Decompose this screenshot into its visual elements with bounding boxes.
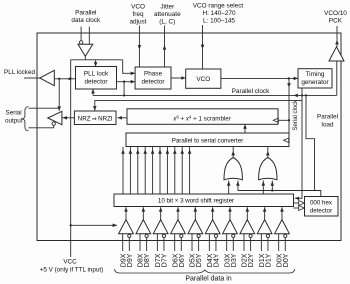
wire serial clock into parallel-serial converter xyxy=(287,139,290,141)
wires shift register outputs to converter (10 bits) xyxy=(122,147,124,194)
wire parallel data clock input Y xyxy=(88,27,90,45)
wire PLL lock detector to PLL locked buffer xyxy=(54,78,75,80)
svg-text:VCO/10: VCO/10 xyxy=(324,10,347,17)
wire clock net horizontal xyxy=(71,59,123,61)
input buffer data receiver D8 xyxy=(142,207,144,219)
node junction VCO output xyxy=(288,77,290,79)
wire clock branch into PLL lock detector xyxy=(95,60,97,67)
wire OR gate B left input from shift register xyxy=(262,181,264,195)
pin D0Y xyxy=(284,238,286,252)
OR gate zero-suppress B xyxy=(259,158,277,180)
wire scrambler to NRZ input xyxy=(118,117,128,119)
svg-text:10 bit × 3 word shift register: 10 bit × 3 word shift register xyxy=(158,198,234,205)
wire line B down into NRZ converter xyxy=(94,100,96,110)
svg-text:Parallel to serial converter: Parallel to serial converter xyxy=(172,137,244,144)
wire clock buffer output down xyxy=(84,56,86,60)
input buffer data receiver D6 xyxy=(177,207,179,219)
pin D0X xyxy=(278,234,280,251)
svg-text:H: 140–270: H: 140–270 xyxy=(202,10,235,17)
svg-text:Serial clock: Serial clock xyxy=(293,99,299,131)
wire jitter attenuate to phase detector xyxy=(164,26,166,68)
node junction hex line at OR gate B xyxy=(271,189,273,191)
pin D4Y xyxy=(215,238,217,252)
svg-text:D1Y: D1Y xyxy=(266,253,273,267)
svg-text:D2Y: D2Y xyxy=(248,253,255,267)
wire OR gate B right input from hex detector line xyxy=(271,181,273,191)
svg-text:VCO: VCO xyxy=(131,4,145,11)
svg-text:VCO: VCO xyxy=(196,76,210,83)
wire PCK output xyxy=(336,26,338,47)
block scrambler x9+x4+1 xyxy=(127,109,278,125)
wire converter to scrambler xyxy=(244,124,246,133)
wire PCK buffer input from parallel clock line xyxy=(336,61,338,95)
svg-text:D7Y: D7Y xyxy=(162,253,169,267)
OR gate zero-suppress A xyxy=(224,158,242,180)
pin D4X xyxy=(208,234,210,251)
wire 000 hex detector output line xyxy=(238,191,321,197)
wire VCO freq adjust to phase detector xyxy=(138,26,140,68)
pin D5X xyxy=(191,234,193,251)
inverting bubble on clock receiver xyxy=(79,41,82,44)
svg-text:detector: detector xyxy=(310,208,332,215)
wire NRZ output to serial driver xyxy=(63,117,75,119)
wire junction down to parallel clock line xyxy=(123,82,125,96)
input buffer clock receiver xyxy=(78,44,93,56)
svg-text:load: load xyxy=(322,122,334,129)
svg-text:Parallel: Parallel xyxy=(317,114,338,121)
wire clock branch to phase detector upper input xyxy=(123,60,135,74)
svg-text:D0Y: D0Y xyxy=(283,253,290,267)
pin D7Y xyxy=(163,238,165,252)
node junction serial clock xyxy=(288,119,290,121)
block 000 hex detector xyxy=(305,197,339,217)
input buffer data receiver D0 xyxy=(281,207,283,219)
block 10 bit x 3 word shift register xyxy=(114,194,294,207)
pin D8X xyxy=(139,234,141,251)
brace parallel data in xyxy=(115,269,295,273)
wire PLL lock detector to phase detector lower input xyxy=(117,81,136,83)
block timing generator xyxy=(298,69,332,88)
input buffer data receiver D1 xyxy=(264,207,266,219)
pin D8Y xyxy=(146,238,148,252)
node junction lower input xyxy=(123,81,125,83)
svg-text:attenuate: attenuate xyxy=(154,11,181,18)
wire serial clock into scrambler xyxy=(278,119,290,121)
wire shift register word to hex detector (bus arrows) xyxy=(294,202,300,204)
svg-text:L: 100–145: L: 100–145 xyxy=(203,18,235,25)
pin D9X xyxy=(122,234,124,251)
svg-text:000 hex: 000 hex xyxy=(310,200,333,207)
wire parallel clock up into PLL lock detector xyxy=(92,89,94,95)
pin D5Y xyxy=(198,238,200,252)
input buffer data receiver D7 xyxy=(160,207,162,219)
svg-text:freq: freq xyxy=(132,11,143,18)
svg-text:generator: generator xyxy=(301,79,329,86)
wire serial clock feed line B xyxy=(95,99,302,101)
output buffer serial output driver xyxy=(48,111,62,124)
wire VCC to input buffers xyxy=(71,224,117,226)
wire junction down to serial output buffer enable xyxy=(58,79,60,111)
node junctions on parallel clock line xyxy=(123,94,125,96)
wire parallel load V2 from timing generator xyxy=(301,88,303,95)
wire OR gate A left input from shift register xyxy=(228,181,230,195)
wire OR gate A right input from hex detector line xyxy=(237,181,239,191)
pin D3X xyxy=(226,234,228,251)
pin D9Y xyxy=(128,238,130,252)
wire VCC riser (left long vertical) xyxy=(70,60,72,257)
block NRZ to NRZI converter xyxy=(74,111,116,125)
wire serial output Y xyxy=(29,125,54,128)
svg-text:data clock: data clock xyxy=(71,17,101,24)
svg-text:output: output xyxy=(5,118,23,125)
svg-text:Parallel data in: Parallel data in xyxy=(185,276,231,283)
svg-text:x9 + x4 + 1 scrambler: x9 + x4 + 1 scrambler xyxy=(172,114,231,122)
svg-text:adjust: adjust xyxy=(129,19,146,26)
svg-text:Serial: Serial xyxy=(6,110,22,117)
svg-text:D5Y: D5Y xyxy=(196,253,203,267)
pin D1X xyxy=(260,234,262,251)
input buffer data receiver D4 xyxy=(212,207,214,219)
wire parallel load V3 elbow xyxy=(306,95,315,190)
svg-text:Phase: Phase xyxy=(144,71,163,78)
wire parallel clock line xyxy=(93,94,337,96)
output buffer PLL locked driver xyxy=(40,70,55,85)
svg-text:D9Y: D9Y xyxy=(127,253,134,267)
svg-text:Jitter: Jitter xyxy=(160,4,175,11)
pin D6X xyxy=(174,234,176,251)
output buffer PCK driver xyxy=(329,47,344,61)
wire VCO to timing generator xyxy=(221,77,298,79)
svg-text:detector: detector xyxy=(84,79,108,86)
wire PLL locked output xyxy=(24,77,40,79)
brace serial output xyxy=(22,107,28,132)
svg-text:Parallel clock: Parallel clock xyxy=(232,88,270,95)
svg-text:D8Y: D8Y xyxy=(144,253,151,267)
inverting bubble on serial output driver xyxy=(52,122,55,125)
wire serial output X xyxy=(29,107,60,109)
svg-text:Parallel: Parallel xyxy=(75,10,96,17)
input buffer data receiver D3 xyxy=(229,207,231,219)
svg-text:+5 V (only if TTL input): +5 V (only if TTL input) xyxy=(40,267,104,274)
svg-text:D4Y: D4Y xyxy=(214,253,221,267)
svg-text:VCO range select: VCO range select xyxy=(193,3,244,10)
pin D2Y xyxy=(250,238,252,252)
pin D3Y xyxy=(232,238,234,252)
block parallel to serial converter xyxy=(126,133,289,147)
svg-text:VCC: VCC xyxy=(63,259,77,266)
svg-text:(L, C): (L, C) xyxy=(159,19,175,26)
block PLL lock detector xyxy=(76,67,117,90)
pin D7X xyxy=(156,234,158,251)
pin D2X xyxy=(243,234,245,251)
svg-text:D6Y: D6Y xyxy=(179,253,186,267)
svg-text:NRZ ⇒ NRZI: NRZ ⇒ NRZI xyxy=(78,115,113,122)
svg-text:detector: detector xyxy=(141,79,165,86)
input buffer data receiver D2 xyxy=(246,207,248,219)
wire OR gate B output to converter xyxy=(267,147,269,158)
svg-text:PCK: PCK xyxy=(329,18,343,25)
svg-text:PLL locked: PLL locked xyxy=(4,69,35,76)
svg-text:D3Y: D3Y xyxy=(231,253,238,267)
input buffer data receiver D9 xyxy=(125,207,127,219)
wire parallel data clock input X xyxy=(80,27,82,41)
pin D1Y xyxy=(267,238,269,252)
wire phase detector to VCO xyxy=(171,77,186,79)
svg-text:PLL lock: PLL lock xyxy=(84,71,109,78)
wire OR gate A output to converter xyxy=(232,147,234,158)
wire VCC rail junction xyxy=(70,224,72,226)
wire VCO range select to VCO xyxy=(202,25,204,69)
block phase detector xyxy=(135,67,171,89)
wire serial clock drop from VCO line xyxy=(288,78,290,140)
node junction on PLL locked line xyxy=(58,78,60,80)
input buffer data receiver D5 xyxy=(194,207,196,219)
pin D6Y xyxy=(180,238,182,252)
svg-text:Timing: Timing xyxy=(306,71,325,78)
chip boundary box xyxy=(37,33,341,241)
block VCO xyxy=(186,69,221,88)
